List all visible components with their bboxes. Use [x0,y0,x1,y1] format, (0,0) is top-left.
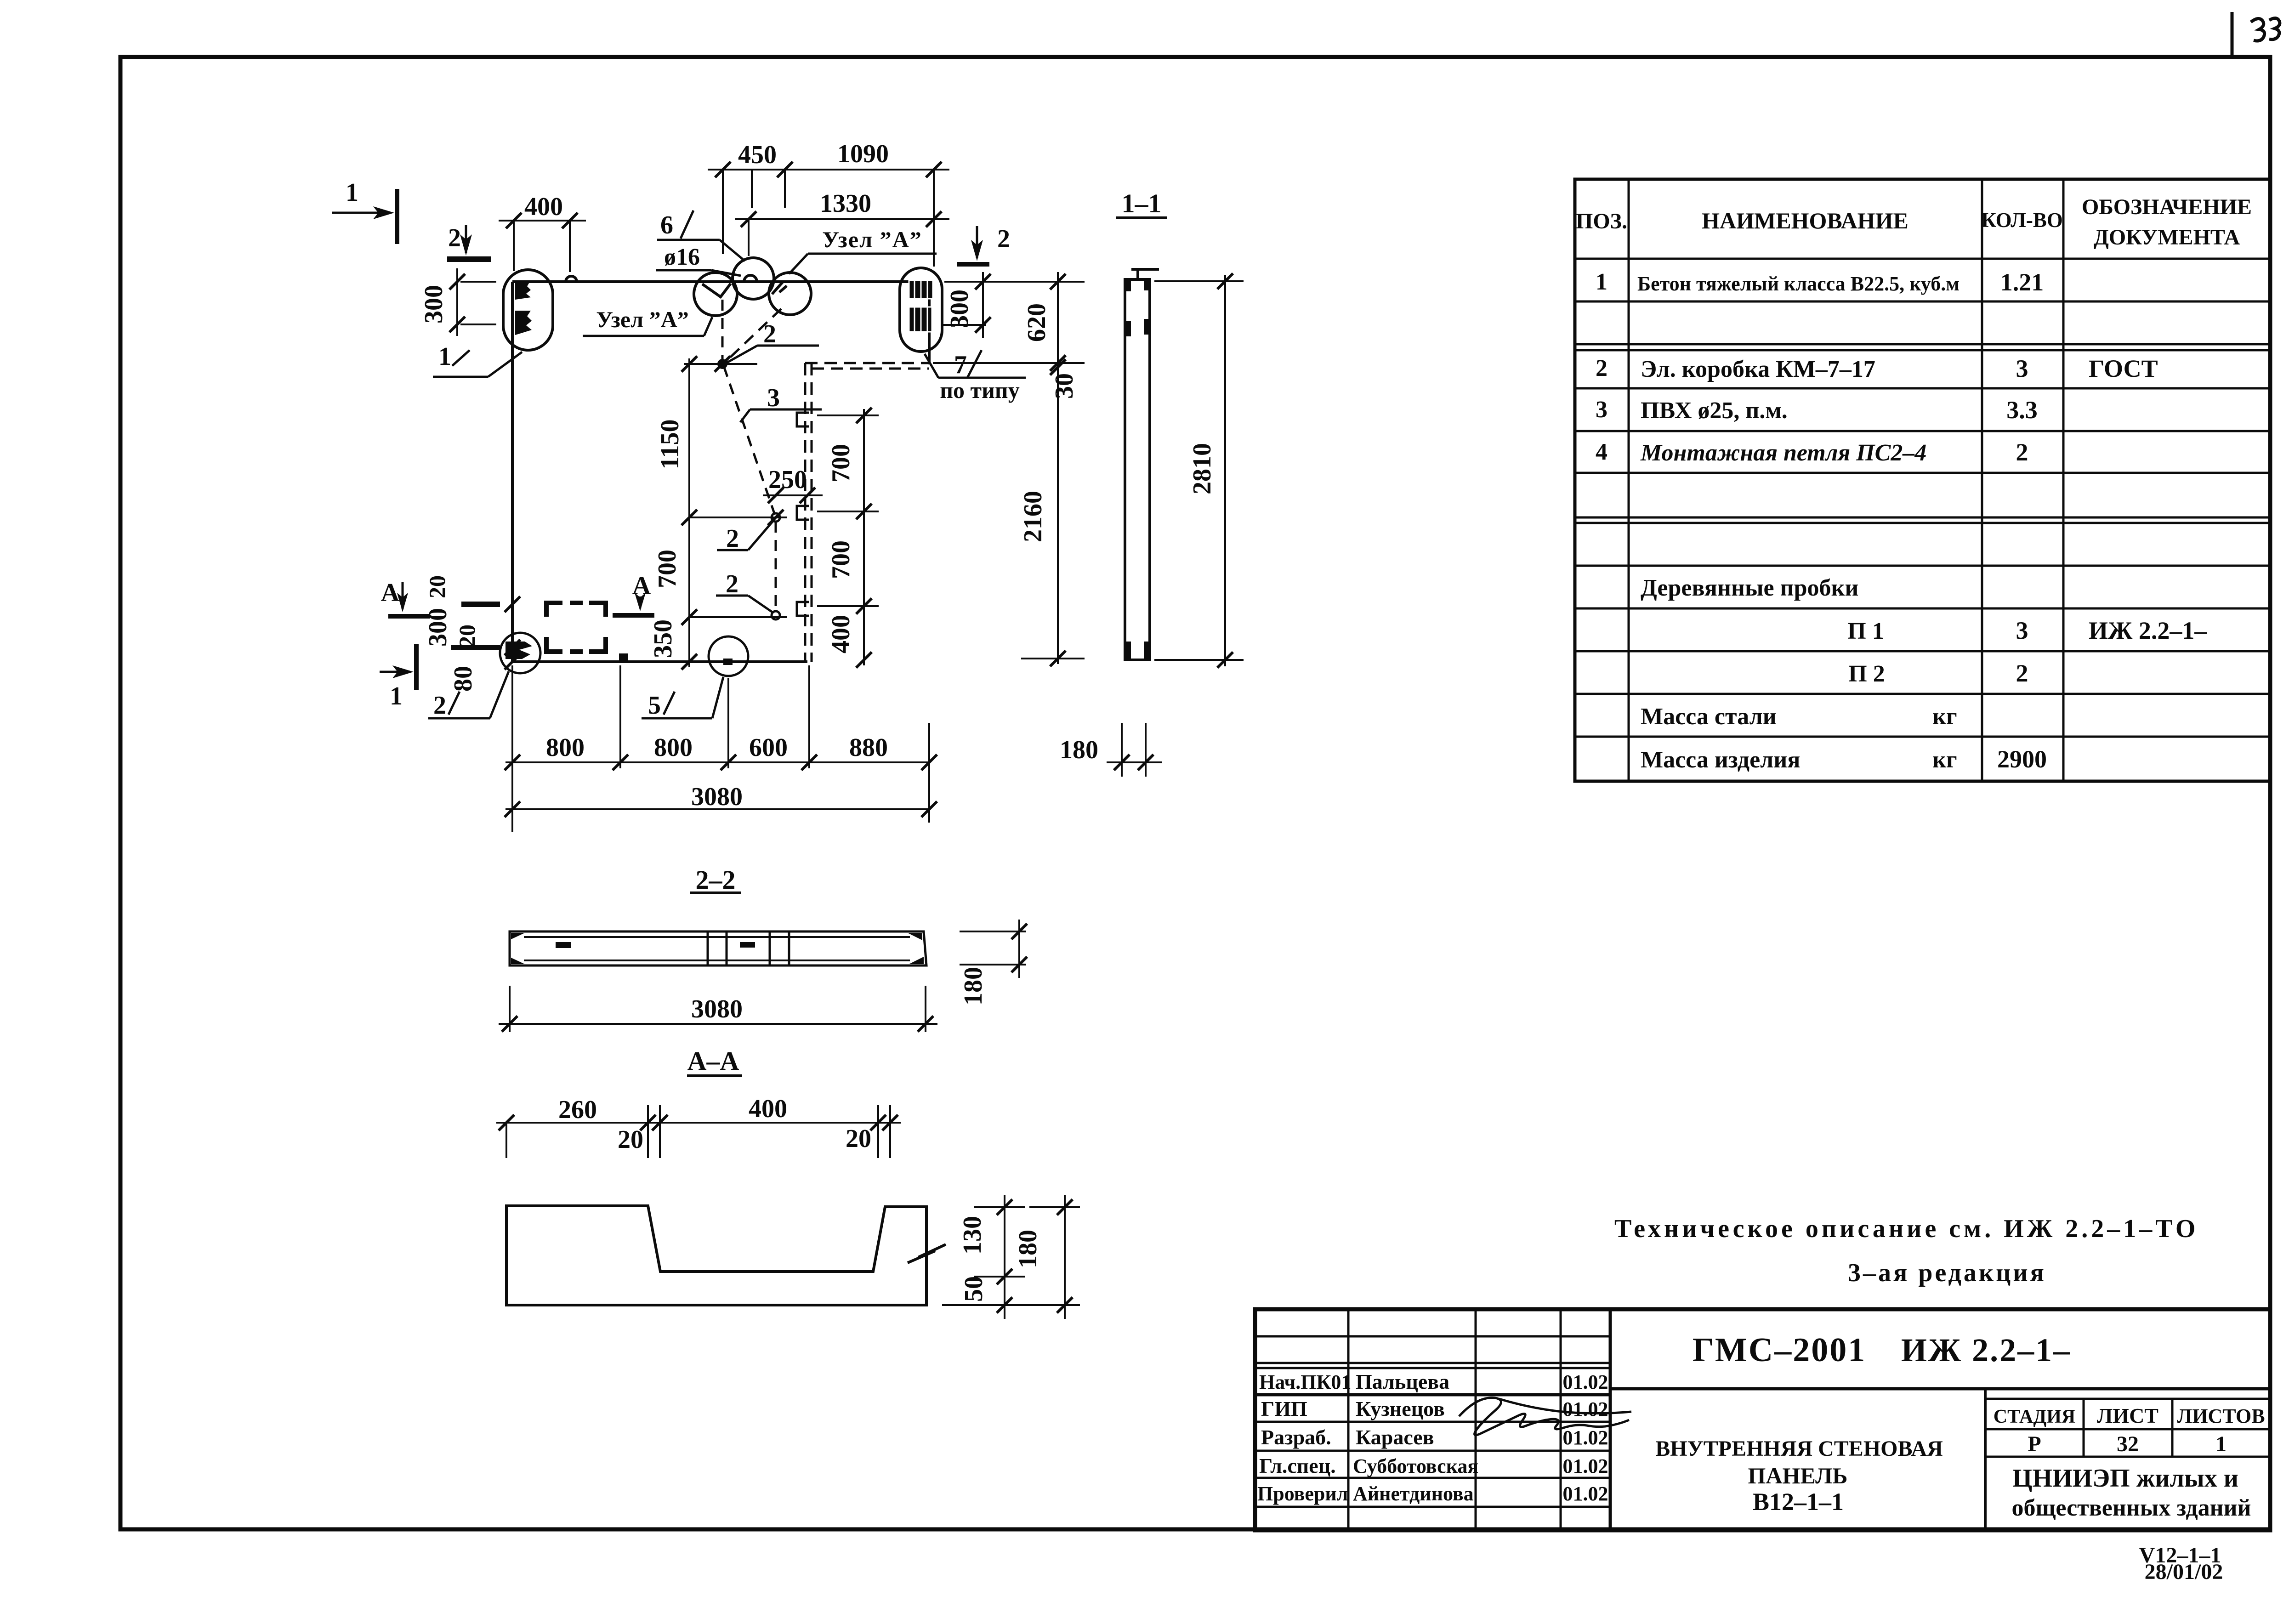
svg-text:Масса изделия: Масса изделия [1641,747,1800,773]
svg-text:600: 600 [749,733,788,762]
inner face lines [524,936,910,938]
svg-text:Бетон тяжелый класса В22.5, ку: Бетон тяжелый класса В22.5, куб.м [1637,273,1960,295]
svg-text:300: 300 [945,290,974,328]
svg-text:ЛИСТ: ЛИСТ [2097,1404,2158,1427]
svg-text:01.02: 01.02 [1563,1426,1608,1449]
door opening hidden edge (dashed, vertical pair) [804,363,807,662]
svg-text:28/01/02: 28/01/02 [2145,1560,2223,1584]
svg-text:Кузнецов: Кузнецов [1356,1397,1445,1420]
panel left edge [511,282,514,662]
svg-text:ИЖ 2.2–1–: ИЖ 2.2–1– [2089,617,2207,644]
svg-text:620: 620 [1022,303,1051,342]
svg-text:3: 3 [2016,355,2028,382]
keyway hatch block upper [515,282,531,300]
svg-text:ЛИСТОВ: ЛИСТОВ [2177,1405,2265,1427]
svg-text:3080: 3080 [691,783,743,811]
leader label 2 (node B) [717,549,748,551]
svg-text:80: 80 [449,666,477,692]
end wedges [511,933,525,939]
dims 130/50 [1004,1195,1005,1319]
svg-text:01.02: 01.02 [1563,1398,1608,1420]
dimension 3080 (2-2) [509,986,511,1032]
break zigzag [908,1244,946,1263]
svg-text:ГМС–2001: ГМС–2001 [1693,1331,1866,1369]
dims 260/20/400/20 [496,1122,901,1124]
2-2 bar outline [510,931,926,965]
svg-text:СТАДИЯ: СТАДИЯ [1994,1406,2075,1427]
dimension row 800/800/600/880 [506,761,931,763]
keyway hatch block upper right [909,280,933,299]
svg-text:1.21: 1.21 [2000,268,2044,296]
dimension chain 1150/700/350 (left inner) [688,358,690,667]
wooden plug dashed box [546,603,606,652]
svg-text:260: 260 [558,1096,597,1124]
panel top edge [512,280,929,283]
corner weld circle bottom-left [500,633,540,673]
electrical box clip 2 [797,506,809,520]
svg-text:ЦНИИЭП жилых и: ЦНИИЭП жилых и [2012,1464,2238,1493]
dimension 180 (below 1-1) [1121,723,1123,777]
svg-text:20: 20 [424,575,450,598]
svg-text:ПАНЕЛЬ: ПАНЕЛЬ [1748,1463,1848,1488]
svg-text:1: 1 [2215,1432,2227,1456]
svg-text:ПОЗ.: ПОЗ. [1576,209,1627,233]
svg-text:Субботовская: Субботовская [1353,1455,1478,1477]
svg-text:В12–1–1: В12–1–1 [1753,1488,1844,1516]
svg-text:кг: кг [1932,704,1957,730]
leader label 6 [657,239,720,241]
svg-text:Карасев: Карасев [1356,1425,1434,1449]
dimension 2810 [1224,275,1226,666]
svg-text:2810: 2810 [1188,443,1216,494]
leader label 2 (node A) [757,345,819,347]
svg-text:180: 180 [1060,736,1098,764]
door opening hidden edge (dashed, horizontal pair) [805,362,929,364]
svg-text:1: 1 [346,178,358,207]
svg-text:3: 3 [767,384,780,412]
svg-text:3.3: 3.3 [2006,396,2038,424]
svg-text:20: 20 [618,1125,643,1154]
leader label 3 [750,409,822,411]
svg-text:Проверил: Проверил [1257,1482,1348,1505]
row lines [1575,258,2270,260]
leader label 2 (node C) [716,595,748,597]
svg-text:2: 2 [726,524,739,553]
column line POS [1628,179,1630,781]
svg-text:Узел ”А”: Узел ”А” [596,307,689,332]
A-A trough outline [506,1206,926,1305]
conduit node B [772,513,780,522]
svg-text:180: 180 [1014,1230,1042,1268]
electrical box clip 3 [797,602,809,616]
svg-text:ОБОЗНАЧЕНИЕ: ОБОЗНАЧЕНИЕ [2082,195,2252,219]
svg-text:A–A: A–A [687,1046,739,1076]
panel right edge [928,282,931,364]
node detail circle lower-left [694,273,737,316]
svg-text:20: 20 [846,1124,871,1153]
dimension chain 700/700/400 (door side) [863,409,865,665]
svg-text:ВНУТРЕННЯЯ СТЕНОВАЯ: ВНУТРЕННЯЯ СТЕНОВАЯ [1655,1437,1943,1461]
svg-text:1330: 1330 [820,189,871,218]
weld mark blob [506,642,532,659]
svg-text:250: 250 [768,466,807,494]
svg-text:Пальцева: Пальцева [1356,1370,1449,1393]
svg-text:01.02: 01.02 [1563,1482,1608,1505]
svg-text:Р: Р [2028,1432,2041,1456]
svg-text:20: 20 [454,625,480,647]
svg-text:2: 2 [1596,355,1607,381]
black square in circle [723,659,733,665]
svg-text:A: A [381,579,400,607]
svg-text:400: 400 [827,615,855,653]
svg-text:6: 6 [660,211,673,239]
conduit node A [717,359,727,369]
middle split [1610,1387,2270,1391]
svg-text:300: 300 [424,608,452,647]
svg-text:ø16: ø16 [664,244,700,270]
centerline dashed below V [721,300,724,361]
dim 180 (A-A) [1064,1195,1066,1319]
handwritten page number mark [2251,18,2265,41]
1-1 bar outline [1125,279,1150,660]
dimension 180 (2-2) [960,931,1026,932]
title block outer [1255,1309,2270,1530]
table outer box [1575,179,2270,781]
left rows [1255,1335,1610,1338]
electrical box clip 1 [797,413,809,426]
dimension 3080 (plan) [506,808,931,810]
svg-text:Техническое описание см. ИЖ: Техническое описание см. ИЖ 2.2–1–ТО [1614,1215,2198,1243]
svg-text:400: 400 [524,193,563,221]
svg-text:Гл.спец.: Гл.спец. [1259,1454,1336,1477]
node detail circle upper (Uzel A) [733,258,774,299]
left columns [1347,1309,1350,1530]
lifting loop bump on top edge [566,276,577,282]
groove mark right [772,282,787,294]
svg-text:700: 700 [827,444,855,483]
svg-text:450: 450 [738,141,777,169]
svg-text:Нач.ПК01: Нач.ПК01 [1259,1371,1351,1393]
black square on bottom edge [619,653,628,661]
panel bottom edge [512,660,807,663]
dimension 620 / 30 / 2160 (right side) [1057,272,1059,664]
svg-text:30: 30 [1050,373,1079,399]
svg-text:01.02: 01.02 [1563,1455,1608,1477]
svg-text:КОЛ-ВО: КОЛ-ВО [1981,209,2063,232]
svg-text:5: 5 [648,691,661,720]
svg-text:ГИП: ГИП [1261,1397,1307,1420]
plug marks [556,942,571,948]
keyway hatch block lower [515,311,532,335]
dimension 300 (right capsule) [982,272,984,338]
svg-text:П 1: П 1 [1847,618,1884,644]
svg-text:4: 4 [1596,439,1607,465]
svg-text:2160: 2160 [1019,491,1047,542]
svg-text:Масса стали: Масса стали [1641,704,1777,730]
top tee [1131,268,1159,271]
svg-text:1150: 1150 [656,420,684,470]
small dims 20/300/20/80 on left edge [461,602,500,607]
svg-text:Айнетдинова: Айнетдинова [1353,1482,1474,1505]
svg-text:700: 700 [827,540,855,579]
svg-text:общественных зданий: общественных зданий [2011,1495,2251,1521]
dimension 300 (left capsule) [456,268,458,336]
signature [1459,1398,1631,1435]
svg-text:400: 400 [749,1095,787,1123]
svg-text:ПВХ ø25, п.м.: ПВХ ø25, п.м. [1641,397,1788,424]
svg-text:Деревянные пробки: Деревянные пробки [1641,575,1858,601]
svg-text:1: 1 [1596,269,1607,295]
svg-text:32: 32 [2117,1432,2139,1456]
svg-text:800: 800 [654,733,693,762]
svg-text:2: 2 [997,225,1010,253]
svg-text:A: A [632,572,651,600]
svg-text:1: 1 [438,342,451,371]
svg-text:1–1: 1–1 [1122,188,1162,218]
svg-text:2: 2 [433,691,446,720]
dimension 400 (top left) [513,221,515,271]
svg-text:800: 800 [546,733,585,762]
svg-text:300: 300 [420,285,448,324]
svg-text:Монтажная петля ПС2–4: Монтажная петля ПС2–4 [1640,440,1926,466]
left edge keyway capsule (detail 1) [503,270,553,350]
bottom fixture circle [709,636,748,676]
svg-text:НАИМЕНОВАНИЕ: НАИМЕНОВАНИЕ [1702,208,1908,233]
svg-text:1090: 1090 [837,140,889,168]
svg-text:2: 2 [448,224,461,252]
svg-text:180: 180 [959,967,988,1005]
svg-text:2: 2 [2016,438,2028,466]
svg-text:кг: кг [1932,747,1957,773]
svg-text:3: 3 [1596,397,1607,423]
svg-text:01.02: 01.02 [1563,1371,1608,1393]
svg-text:3: 3 [2016,617,2028,644]
corner blocks [1125,279,1131,291]
dimension 250 [763,494,823,496]
svg-text:350: 350 [649,619,677,658]
svg-text:2–2: 2–2 [696,865,736,895]
column line KOL-VO [1981,179,1983,781]
svg-text:Узел ”А”: Узел ”А” [822,227,922,252]
svg-text:700: 700 [653,550,682,588]
svg-text:7: 7 [954,351,967,379]
svg-text:по типу: по типу [940,377,1020,403]
joint lines [707,931,709,965]
conduit dashed diagonal A-B [724,366,775,515]
conduit dashed vertical B-C [775,522,777,611]
svg-text:3080: 3080 [691,995,743,1023]
svg-text:880: 880 [849,733,888,762]
right edge keyway capsule (detail 7) [900,268,942,352]
conduit node C [772,611,780,619]
svg-text:2: 2 [2016,659,2028,687]
dimension 450 / 1090 (top) [708,169,949,170]
svg-text:1: 1 [390,682,403,710]
node detail circle lower-right [769,273,811,315]
groove V mark [702,284,731,297]
stage box [1984,1389,1987,1530]
svg-text:ДОКУМЕНТА: ДОКУМЕНТА [2094,225,2240,250]
column line OBOZN [2062,179,2065,781]
svg-text:3–ая редакция: 3–ая редакция [1848,1259,2046,1287]
keyway hatch block lower right [909,307,932,332]
dimension 1330 [735,218,949,220]
svg-text:50: 50 [960,1276,988,1302]
svg-text:ИЖ 2.2–1–: ИЖ 2.2–1– [1901,1332,2071,1368]
svg-text:2: 2 [763,320,776,348]
svg-text:130: 130 [958,1216,987,1255]
svg-text:2900: 2900 [1997,745,2047,773]
svg-text:Разраб.: Разраб. [1261,1425,1331,1449]
svg-text:2: 2 [726,570,738,598]
lifting loop inside circle [744,275,757,282]
page number tick (top right, outside frame) [2231,12,2234,57]
svg-text:П 2: П 2 [1848,661,1885,687]
svg-text:ГОСТ: ГОСТ [2089,355,2158,382]
svg-text:Эл. коробка КМ–7–17: Эл. коробка КМ–7–17 [1641,356,1875,382]
